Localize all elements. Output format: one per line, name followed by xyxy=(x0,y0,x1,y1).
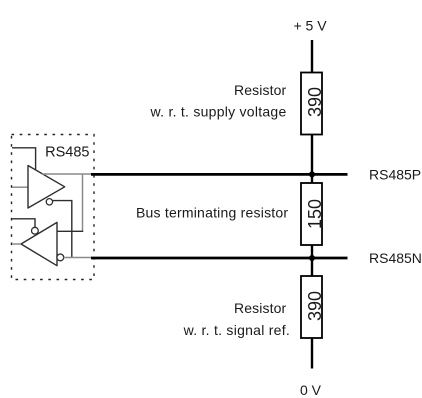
bubble driver inverting output xyxy=(46,199,52,205)
wire R2 to R3 xyxy=(311,245,313,276)
wire driver enable xyxy=(12,148,36,171)
svg-text:w. r. t. supply voltage: w. r. t. supply voltage xyxy=(150,104,287,120)
svg-text:RS485N: RS485N xyxy=(369,250,422,266)
resistor R3 390 xyxy=(301,276,322,338)
IC boundary dashed box xyxy=(12,135,95,280)
svg-text:+ 5 V: + 5 V xyxy=(293,17,327,33)
wire bus RS485P xyxy=(91,173,348,176)
junction node RS485N xyxy=(309,255,315,261)
wire driver output Y to RS485P xyxy=(42,173,92,175)
svg-text:w. r. t. signal ref.: w. r. t. signal ref. xyxy=(183,322,290,338)
wire +5V to R1 xyxy=(311,40,313,73)
svg-text:0 V: 0 V xyxy=(300,382,322,398)
svg-text:RS485P: RS485P xyxy=(369,167,421,183)
svg-text:390: 390 xyxy=(305,291,325,321)
op-amp receiver U1b xyxy=(21,222,57,265)
resistor R1 390 xyxy=(301,73,322,135)
wire bus RS485N xyxy=(91,257,348,260)
svg-text:RS485: RS485 xyxy=(45,145,89,161)
wire R1 to R2 xyxy=(311,135,313,184)
wire R3 to 0V xyxy=(311,338,313,369)
wire driver inverting output Z xyxy=(53,201,72,258)
wire receiver input A xyxy=(57,230,83,232)
wire vertical RS485P to receiver input xyxy=(82,174,84,231)
wire receiver enable xyxy=(12,219,35,227)
svg-text:Resistor: Resistor xyxy=(234,82,287,98)
op-amp driver U1a xyxy=(28,166,65,209)
svg-text:Resistor: Resistor xyxy=(234,300,287,316)
svg-text:150: 150 xyxy=(305,199,325,229)
svg-text:Bus terminating resistor: Bus terminating resistor xyxy=(136,205,288,221)
junction node RS485P xyxy=(309,171,315,177)
wire receiver output R xyxy=(12,243,21,245)
resistor R2 150 xyxy=(301,183,322,245)
svg-text:390: 390 xyxy=(305,87,325,117)
wire driver input D xyxy=(12,186,28,188)
wire receiver input B to RS485N xyxy=(64,257,92,259)
bubble receiver inverting input B xyxy=(57,254,64,261)
bubble receiver enable xyxy=(32,227,39,234)
